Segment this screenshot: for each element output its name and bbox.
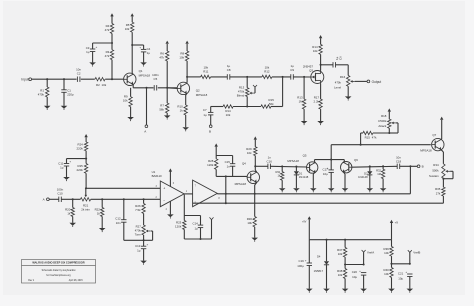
ground R20: [69, 223, 76, 226]
potentiometer R34 500k Sustain: [442, 164, 445, 179]
svg-text:10k: 10k: [123, 99, 128, 103]
ground R38: [342, 289, 349, 292]
svg-text:C16: C16: [267, 160, 273, 164]
power arrow R4: [110, 13, 113, 16]
svg-text:1µ: 1µ: [60, 165, 64, 169]
iabc network top wire: [184, 215, 200, 217]
capacitor C3 1u: [92, 43, 94, 49]
svg-text:R11: R11: [203, 70, 208, 74]
node B terminal left: [209, 125, 212, 128]
svg-text:B: B: [209, 130, 211, 134]
svg-text:220p: 220p: [67, 93, 74, 97]
node riser top: [282, 76, 284, 78]
resistor R24 220k: [85, 137, 87, 142]
svg-text:Q3: Q3: [309, 69, 313, 73]
svg-text:10k: 10k: [125, 27, 130, 31]
svg-text:+: +: [359, 269, 361, 273]
svg-text:−: −: [163, 198, 165, 202]
wire to node A: [146, 88, 148, 125]
svg-text:120k: 120k: [175, 224, 182, 228]
capacitor C2 10n (series): [77, 76, 81, 82]
svg-text:+: +: [405, 270, 407, 274]
wire C18 to node B: [400, 165, 418, 167]
ground C13: [140, 261, 147, 264]
svg-text:27k: 27k: [436, 191, 441, 195]
ground R13g: [301, 121, 308, 124]
output terminal: [367, 80, 370, 83]
wire q4 base rail: [216, 175, 247, 177]
wire trim to U1 minus: [91, 198, 161, 200]
svg-text:1N4148: 1N4148: [358, 175, 368, 179]
wire C10 to trim: [61, 198, 80, 200]
capacitor C17 10u (envelope): [329, 169, 334, 171]
svg-text:C14: C14: [192, 221, 198, 225]
svg-text:A: A: [43, 198, 45, 202]
potentiometer R18 C500k Attack: [388, 112, 390, 120]
svg-text:Output: Output: [372, 80, 382, 84]
ground R10: [182, 127, 189, 130]
resistor R4 47k: [111, 16, 113, 23]
ground C20: [360, 289, 367, 292]
resistor R40 10k: [391, 264, 393, 268]
svg-text:MPSA18: MPSA18: [196, 93, 208, 97]
svg-text:MPSA18: MPSA18: [139, 73, 151, 77]
svg-text:470k: 470k: [38, 93, 45, 97]
capacitor C1 220p: [63, 79, 65, 90]
svg-text:C2: C2: [77, 71, 81, 75]
resistor R10 1k (Q2 emitter): [184, 105, 187, 115]
ground C19: [306, 289, 313, 292]
wire Q5 collector: [314, 162, 317, 164]
capacitor C19 100u: [308, 240, 310, 263]
capacitor C6 1u (series): [332, 62, 334, 67]
resistor R38 10k: [344, 265, 346, 269]
potentiometer R27 470k Tone: [142, 225, 145, 235]
node R32: [382, 165, 384, 167]
capacitor C16 1n (series): [267, 164, 269, 169]
svg-text:C6: C6: [339, 56, 343, 60]
wire vrefA branch: [345, 264, 364, 266]
wire C9 to Q3 gate: [293, 76, 311, 78]
node trim wiper: [85, 187, 87, 189]
resistor R3 47k: [111, 43, 113, 50]
svg-text:Sustain: Sustain: [429, 174, 439, 178]
svg-text:470k: 470k: [335, 80, 342, 84]
wire input to Q1 base: [32, 78, 124, 80]
node fb to output: [225, 175, 227, 177]
svg-text:MPSA18: MPSA18: [420, 149, 432, 153]
svg-text:10k: 10k: [226, 113, 231, 117]
svg-text:Input: Input: [21, 78, 28, 82]
svg-text:+: +: [163, 187, 165, 191]
node iabc bottom: [199, 238, 201, 240]
resistor R13g 1M (gate to gnd): [303, 77, 305, 99]
svg-text:+: +: [96, 45, 98, 49]
ground R31: [279, 188, 286, 191]
wire R15 left riser: [360, 133, 362, 145]
wire U1 iabc pin: [183, 195, 185, 216]
wire attack rail: [331, 144, 431, 146]
transistor Q2 MPSA18: [177, 82, 189, 94]
svg-text:1µ: 1µ: [147, 51, 151, 55]
node Q4 emitter: [254, 193, 256, 195]
power arrow R29: [254, 136, 257, 139]
svg-text:10k: 10k: [247, 151, 252, 155]
svg-text:R35: R35: [435, 187, 441, 191]
svg-text:Level: Level: [334, 85, 341, 89]
svg-text:C19: C19: [298, 259, 304, 263]
wire pot to gnd: [347, 86, 349, 96]
resistor R28 120k (parallel): [215, 147, 217, 156]
resistor R6 47k: [166, 44, 168, 51]
svg-text:C17: C17: [322, 167, 328, 171]
svg-text:47k: 47k: [105, 54, 110, 58]
svg-text:VrefA: VrefA: [367, 250, 374, 254]
svg-text:500k: 500k: [432, 169, 439, 173]
resistor R20 1k: [72, 199, 74, 207]
node sustain bottom: [442, 178, 444, 180]
svg-text:R31: R31: [275, 170, 280, 174]
node gate bias: [303, 76, 305, 78]
ground C3: [89, 62, 96, 65]
svg-text:Attack: Attack: [378, 124, 387, 128]
power arrow R14: [319, 35, 322, 38]
capacitor C5 100n (series): [154, 85, 158, 91]
svg-text:Q7: Q7: [432, 133, 436, 137]
wire sustain return rail: [226, 202, 444, 204]
wire Q1 collector: [132, 73, 133, 76]
node Q2 collector out: [186, 76, 188, 78]
node C1 top: [63, 78, 65, 80]
wire node B riser: [409, 166, 411, 194]
wire attack wiper loop: [396, 122, 398, 124]
power arrow R8: [185, 41, 188, 44]
svg-text:MPSA18: MPSA18: [235, 182, 247, 186]
node attack pot bottom: [388, 132, 390, 134]
power arrow R5: [131, 13, 134, 16]
wire Q3 source: [320, 84, 322, 100]
ground R22: [99, 228, 106, 231]
capacitor C7 1u (to node B): [210, 107, 212, 113]
svg-text:C18: C18: [396, 160, 402, 164]
node R4/R3/C3: [111, 42, 113, 44]
power arrow Q7: [440, 117, 443, 120]
op-amp U1 BA6110: [160, 181, 184, 207]
resistor R7 56k (to gnd): [166, 88, 168, 103]
power arrow +9: [390, 220, 393, 223]
wire Q4 emitter: [255, 183, 257, 186]
capacitor C9 1u (series): [290, 74, 292, 79]
svg-text:C8: C8: [227, 68, 231, 72]
ground Q6: [342, 188, 349, 191]
ground C21: [407, 289, 414, 292]
wire C11 branch: [67, 158, 87, 160]
resistor R32 1M: [382, 166, 384, 169]
svg-text:10n: 10n: [116, 221, 121, 225]
node R37 rail: [344, 239, 346, 241]
svg-text:Tone: Tone: [135, 232, 142, 236]
svg-text:56k: 56k: [269, 102, 274, 106]
svg-text:1µ: 1µ: [203, 113, 207, 117]
wire buffer output rail: [217, 193, 410, 195]
svg-text:+: +: [139, 46, 141, 50]
wire C8 to R12: [230, 76, 262, 78]
svg-text:D4: D4: [317, 255, 321, 259]
resistor R5 10k: [131, 16, 133, 22]
wire collector row: [255, 165, 268, 167]
resistor R1 470k: [46, 79, 48, 87]
node R31: [281, 165, 283, 167]
wire U1 ground pin: [169, 201, 171, 214]
node Q1 base divider: [111, 78, 113, 80]
wire R11 to C8: [211, 76, 228, 78]
wire Q6 emitter: [343, 172, 345, 174]
resistor R14b 10k (series): [223, 105, 233, 108]
svg-text:+9V: +9V: [302, 221, 307, 224]
wire C4 branch: [132, 44, 143, 46]
svg-text:C9: C9: [290, 68, 294, 72]
resistor R26 7.5k: [143, 199, 145, 203]
wire R12 to C9: [272, 76, 291, 78]
node A branch: [145, 87, 147, 89]
svg-text:10µ: 10µ: [323, 172, 328, 176]
svg-text:120k: 120k: [207, 163, 214, 167]
resistor R8 10k: [186, 44, 188, 51]
transistor Q5 MPSA18: [307, 162, 318, 173]
svg-text:47k: 47k: [159, 55, 164, 59]
node Q4 collector: [254, 165, 256, 167]
svg-text:1k: 1k: [97, 212, 101, 216]
capacitor C15 1n (parallel): [232, 156, 234, 164]
ground C1: [61, 106, 68, 109]
wire C6 to level pot: [336, 64, 349, 66]
resistor R37 10k: [344, 240, 346, 248]
ground R1: [44, 106, 51, 109]
wire tone wiper loop: [151, 230, 153, 232]
transistor Q1 MPSA18: [124, 73, 136, 85]
resistor R17 2.2k (source): [319, 99, 322, 109]
svg-text:Q5: Q5: [303, 153, 307, 157]
wire buffer feedback: [225, 194, 227, 203]
svg-text:1µ: 1µ: [86, 50, 90, 54]
wire pot bottom: [246, 97, 248, 107]
ground R32: [380, 188, 387, 191]
svg-text:1n: 1n: [227, 165, 231, 169]
node D4 rail: [325, 239, 327, 241]
node buffer fb: [225, 193, 227, 195]
svg-text:10k: 10k: [338, 252, 343, 256]
svg-text:R32: R32: [376, 168, 381, 172]
node D2: [369, 165, 371, 167]
capacitor C20 10u: [361, 272, 366, 274]
svg-text:+: +: [305, 259, 307, 263]
power arrow U1: [169, 168, 172, 171]
svg-text:C21: C21: [398, 271, 404, 275]
wire sustain wiper loop: [450, 170, 453, 172]
vref arrow blend wiper: [253, 85, 257, 87]
ground R30: [251, 238, 258, 241]
vref arrow iabc: [210, 217, 214, 219]
node R22 top: [101, 198, 103, 200]
transistor Q3 2N5457 JFET: [311, 71, 324, 84]
node D1: [295, 166, 297, 168]
wire C16 to Q5 base: [270, 165, 306, 168]
ground level pot: [345, 96, 352, 99]
ground D4: [323, 289, 330, 292]
wire Q1 emitter to rail: [132, 85, 134, 88]
svg-text:MPSA18: MPSA18: [287, 159, 299, 163]
svg-text:1M: 1M: [299, 99, 304, 103]
svg-text:10µ: 10µ: [398, 276, 403, 280]
node A terminal: [145, 125, 148, 128]
capacitor C10 100n (series): [58, 197, 60, 202]
iabc network bottom wire: [184, 238, 211, 240]
capacitor C8 1u (series): [226, 74, 228, 79]
title block: [22, 260, 96, 284]
wire Q4 collector: [255, 170, 256, 172]
resistor R25 220k: [85, 159, 87, 164]
diode D2 1N4148: [369, 166, 371, 171]
svg-text:C5: C5: [154, 77, 158, 81]
svg-text:for FreeStompboxes.org: for FreeStompboxes.org: [46, 274, 71, 277]
resistor R29 10k: [254, 140, 256, 147]
svg-text:C10: C10: [57, 191, 63, 195]
ground R40: [388, 289, 395, 292]
svg-text:+9: +9: [395, 220, 399, 224]
ground Q5: [310, 188, 317, 191]
power arrow R6: [166, 41, 169, 44]
wire env riser: [330, 145, 332, 170]
ground D1: [293, 188, 300, 191]
vref arrow VrefA: [362, 250, 366, 252]
wire vrefB branch: [392, 263, 410, 265]
resistor R35 27k: [442, 179, 444, 188]
svg-text:220k: 220k: [77, 146, 84, 150]
svg-text:R16: R16: [340, 75, 346, 79]
capacitor C14 1u (iabc): [200, 216, 202, 226]
svg-text:10k: 10k: [102, 83, 107, 87]
svg-text:D1: D1: [299, 171, 303, 175]
svg-text:+: +: [147, 242, 149, 246]
wire supply rail: [309, 239, 391, 241]
wire Q6 base row: [352, 165, 397, 168]
svg-text:1N4148: 1N4148: [299, 175, 309, 179]
svg-text:47k: 47k: [372, 136, 377, 140]
power arrow R18: [388, 108, 391, 111]
wire A to C10: [49, 198, 59, 200]
wire Q2 base: [167, 87, 177, 90]
svg-text:April 28, 2015: April 28, 2015: [69, 279, 84, 282]
resistor R15 47k (series): [363, 131, 373, 134]
svg-text:1µ: 1µ: [195, 226, 199, 230]
wire Q6 collector: [343, 162, 344, 163]
diode D1 1N4148: [295, 167, 297, 172]
ground U1: [167, 214, 174, 217]
svg-text:D2: D2: [364, 171, 368, 175]
wire Q2 collector: [186, 82, 188, 83]
node drain: [320, 64, 322, 66]
wire riser to top: [282, 77, 284, 107]
svg-text:C13: C13: [135, 244, 141, 248]
node C12 top: [123, 198, 125, 200]
svg-text:10k: 10k: [384, 272, 389, 276]
node env cap rail: [330, 159, 332, 161]
ground R7: [164, 115, 171, 118]
wire U1 out to buffer: [184, 193, 193, 195]
node B terminal right: [417, 165, 420, 168]
buffer amplifier U1b: [193, 180, 218, 207]
node R26 top: [143, 198, 145, 200]
wire Q7 emitter: [441, 150, 443, 152]
resistor R19 56k (series): [261, 105, 271, 108]
resistor R23 120k (iabc): [183, 216, 185, 221]
svg-text:Q2: Q2: [196, 88, 200, 92]
svg-text:7.5k: 7.5k: [135, 208, 141, 212]
svg-text:WALRUS AUDIO DEEP SIX COMPRESS: WALRUS AUDIO DEEP SIX COMPRESSOR: [32, 260, 84, 264]
resistor R2 10k (series): [95, 77, 105, 82]
power arrow R28: [215, 143, 218, 146]
node R5/C4: [131, 44, 133, 46]
resistor R11 10k (series): [201, 75, 211, 78]
power arrow DC in: [308, 216, 311, 219]
svg-text:B: B: [422, 165, 424, 169]
ground R9: [127, 117, 134, 120]
wire collector to R11: [187, 76, 201, 78]
svg-text:+: +: [69, 160, 71, 164]
svg-text:2k trim: 2k trim: [81, 208, 90, 212]
node blend pot top: [246, 76, 248, 78]
svg-text:Q6: Q6: [354, 158, 358, 162]
svg-text:100µ: 100µ: [297, 264, 304, 268]
svg-text:2.2k: 2.2k: [314, 99, 320, 103]
vref arrow VrefB: [408, 250, 412, 252]
svg-text:C15: C15: [225, 160, 231, 164]
ground C17: [328, 188, 335, 191]
svg-text:1N5817: 1N5817: [314, 269, 324, 273]
capacitor C18 10n (series): [396, 164, 398, 169]
resistor R39 10k: [391, 240, 393, 247]
node R1 top: [46, 78, 48, 80]
node vref B: [390, 263, 392, 265]
diode D4 1N5817: [326, 240, 328, 262]
node vref A: [344, 263, 346, 265]
resistor R14 10k (drain): [320, 38, 322, 44]
trimmer R21 2k: [80, 198, 90, 201]
svg-text:R12: R12: [264, 70, 270, 74]
ground C11: [63, 177, 70, 180]
node Q2 base: [166, 87, 168, 89]
wire collector top rail: [315, 159, 345, 161]
wire Q2 emitter: [186, 94, 187, 95]
wire bottom tone rail: [211, 106, 223, 108]
transistor Q6 MPSA18 (mirrored): [341, 162, 352, 173]
transistor Q4 MPSA18: [247, 171, 259, 183]
svg-text:C7: C7: [203, 108, 207, 112]
potentiometer R16 470k Level: [347, 76, 350, 87]
node attack: [360, 144, 362, 146]
svg-text:C20: C20: [352, 270, 358, 274]
capacitor C21 10u: [407, 273, 412, 275]
svg-text:C500k: C500k: [378, 119, 387, 123]
capacitor C13 1u: [143, 240, 145, 246]
svg-text:R2: R2: [96, 83, 100, 87]
svg-text:10k: 10k: [313, 49, 318, 53]
svg-text:R34: R34: [433, 163, 439, 167]
svg-text:Q1: Q1: [139, 69, 143, 73]
wire R15 to pot bottom: [373, 132, 389, 134]
wire C3 branch: [93, 42, 112, 44]
svg-text:10k: 10k: [179, 55, 184, 59]
